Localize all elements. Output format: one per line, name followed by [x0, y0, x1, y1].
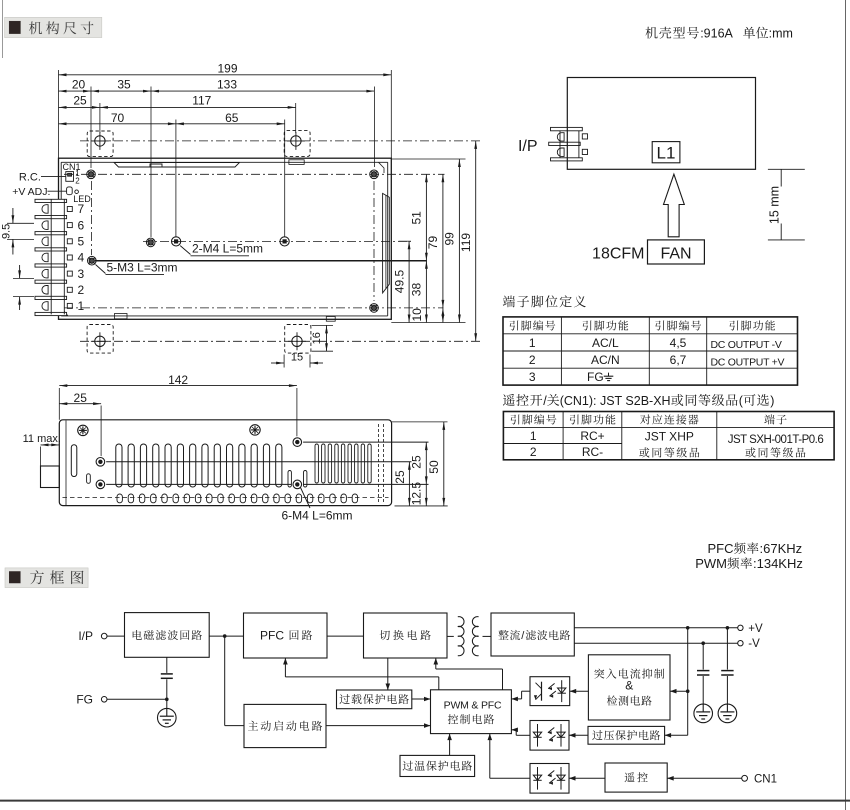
wire OVL to PWM	[412, 697, 431, 702]
svg-text:9.5: 9.5	[1, 224, 13, 239]
remote control note line	[503, 394, 774, 408]
svg-text::mm: :mm	[769, 27, 793, 41]
LED	[73, 190, 91, 204]
svg-text:11 max.: 11 max.	[23, 433, 61, 445]
corner gusset top-right	[379, 162, 385, 173]
connector CN1	[63, 162, 81, 185]
svg-text:PWM & PFC: PWM & PFC	[444, 700, 502, 712]
screw M3 top-right	[370, 170, 379, 179]
junction +V cap	[726, 626, 730, 630]
svg-text:51: 51	[410, 211, 424, 225]
wire U3 to PWM	[488, 734, 531, 779]
top edge tab	[289, 160, 304, 165]
inductor L1 box	[652, 142, 680, 163]
side dim 25 top	[59, 391, 101, 459]
wire PFC to SW	[327, 635, 364, 637]
svg-text:R.C.: R.C.	[19, 171, 41, 183]
table2 data	[530, 429, 823, 459]
table1 title 端子脚位定义	[503, 295, 586, 307]
dim 16	[311, 325, 333, 351]
svg-text:49.5: 49.5	[392, 269, 406, 293]
wire U2 to PWM	[511, 728, 530, 736]
svg-text:18CFM: 18CFM	[592, 245, 644, 262]
svg-text:15: 15	[291, 351, 303, 363]
side dim 50	[427, 422, 445, 506]
I/P connector	[549, 127, 588, 161]
block INR 突入电流抑制&检测电路	[588, 655, 670, 720]
junction FG	[165, 698, 169, 702]
centerline flange top	[80, 140, 481, 142]
svg-text:(CN1): JST S2B-XH: (CN1): JST S2B-XH	[560, 394, 671, 408]
case outline top view	[59, 158, 392, 319]
centerline screws bottom	[64, 307, 444, 309]
svg-text::134KHz: :134KHz	[753, 556, 803, 571]
svg-text:DC OUTPUT +V: DC OUTPUT +V	[711, 356, 785, 368]
top edge vent bar	[114, 163, 240, 168]
mounting flange top-right	[284, 131, 310, 157]
ext case top right	[391, 158, 465, 160]
mounting flange bottom-right	[285, 325, 311, 354]
side screw c	[292, 436, 304, 448]
svg-text:&: &	[625, 679, 633, 693]
mounting flange bottom-left	[87, 325, 113, 354]
svg-text:65: 65	[225, 111, 239, 125]
label 5-M3 L=3mm	[96, 260, 178, 274]
side screw hole line mid-left	[100, 461, 411, 463]
label I/P	[518, 138, 538, 155]
wire sense to OVP	[665, 733, 688, 738]
side screw d	[292, 479, 304, 491]
screw M3 mid	[146, 238, 155, 247]
label R.C.	[19, 171, 66, 183]
side screw phillips mid	[250, 425, 260, 435]
terminal block	[35, 199, 67, 315]
mounting flange top-left	[87, 131, 113, 157]
svg-text:16: 16	[311, 332, 323, 344]
side vent slots	[116, 444, 371, 487]
wire OT to PWM	[447, 734, 452, 756]
block OVL 过载保护电路	[337, 690, 412, 709]
block PFC回路	[244, 613, 328, 658]
table2 grid	[503, 412, 834, 460]
svg-text:FG: FG	[587, 370, 604, 384]
potentiometer +V ADJ	[67, 187, 73, 195]
svg-text:119: 119	[459, 233, 473, 252]
centerline screws top	[64, 173, 445, 175]
wire INR to U1	[570, 689, 589, 694]
svg-text:FG: FG	[76, 692, 93, 706]
bottom edge tab right	[326, 317, 335, 322]
svg-text:JST SXH-001T-P0.6: JST SXH-001T-P0.6	[728, 434, 824, 446]
label 18CFM	[592, 245, 644, 262]
svg-text:(: (	[739, 394, 744, 408]
centerline M4 screws	[143, 240, 411, 242]
block EMI 电磁滤波回路	[125, 613, 210, 658]
svg-text:25: 25	[73, 94, 87, 108]
svg-text:): )	[770, 394, 774, 408]
side bottom oval slots	[117, 494, 358, 503]
optocoupler U1	[530, 677, 570, 706]
wire sense to INR	[670, 689, 688, 694]
transformer T1	[458, 617, 479, 656]
dim 119	[459, 141, 477, 341]
wire REM to U3	[569, 776, 605, 781]
block ACT 主动启动电路	[244, 704, 326, 747]
svg-text:4,5: 4,5	[670, 336, 687, 350]
svg-text:6: 6	[78, 218, 85, 232]
svg-text:25: 25	[74, 391, 88, 405]
svg-text:50: 50	[427, 460, 441, 474]
dim 25/117	[59, 94, 296, 133]
svg-text:AC/N: AC/N	[591, 353, 620, 367]
screw M4 a	[172, 237, 181, 246]
capacitor C2 +V	[721, 628, 733, 704]
svg-text:35: 35	[117, 77, 131, 91]
svg-text:DC OUTPUT -V: DC OUTPUT -V	[711, 339, 782, 351]
svg-text:5: 5	[78, 235, 85, 249]
svg-text:PWM: PWM	[695, 556, 727, 571]
side dim 25a	[393, 462, 411, 506]
svg-text:2: 2	[75, 176, 80, 185]
side dim 25b	[409, 442, 427, 484]
wire +V sense down	[687, 628, 689, 736]
ground C1	[694, 704, 713, 723]
svg-text:10: 10	[410, 308, 424, 322]
wire SW to OVL	[386, 658, 391, 690]
svg-text:142: 142	[168, 373, 188, 387]
table2 header row	[511, 414, 787, 424]
dim 9.5	[1, 208, 35, 255]
dim 20/35/133	[59, 77, 375, 237]
wire FG	[107, 698, 167, 700]
svg-text:2: 2	[78, 283, 85, 297]
side view case	[59, 420, 391, 506]
side view bottom dashed line	[63, 497, 389, 499]
dim 51/38	[410, 174, 428, 322]
wire -V rail	[574, 642, 737, 644]
label 2-M4 L=5mm	[180, 242, 263, 256]
corner gusset bottom-left	[63, 310, 68, 316]
side ext line3	[429, 442, 431, 444]
svg-text:7: 7	[78, 202, 85, 216]
section header 机构尺寸	[5, 17, 102, 37]
wire OVP to U2	[569, 733, 588, 738]
svg-text:4: 4	[78, 251, 85, 265]
svg-text:FAN: FAN	[660, 245, 691, 262]
right side louver	[383, 193, 390, 293]
table1 grid	[503, 317, 798, 385]
junction sense INR	[686, 689, 690, 693]
dim 15 mm	[767, 169, 805, 240]
svg-text::916A: :916A	[700, 27, 733, 41]
svg-text:/: /	[521, 630, 525, 642]
wire U1 to PWM	[511, 691, 530, 701]
svg-text:3: 3	[78, 267, 85, 281]
screw M3 mid-left	[88, 256, 97, 265]
svg-text:+V: +V	[748, 623, 763, 635]
label 6-M4 L=6mm	[282, 488, 353, 523]
svg-text:+V ADJ.: +V ADJ.	[12, 186, 50, 198]
side screw phillips left	[78, 425, 88, 435]
terminal +V	[738, 623, 763, 635]
dim 99	[443, 159, 461, 323]
line 5-M3 mid	[95, 260, 427, 262]
svg-text:PFC: PFC	[708, 541, 734, 556]
block OVP 过压保护电路	[588, 726, 665, 744]
svg-text:CN1: CN1	[754, 773, 777, 785]
dim 199	[59, 61, 392, 158]
AC inlet connector	[41, 466, 60, 488]
svg-text:I/P: I/P	[78, 629, 93, 643]
wire SW to transformer	[447, 635, 454, 637]
dim 15	[271, 351, 323, 367]
svg-text:117: 117	[192, 94, 211, 108]
side screw b	[95, 479, 107, 491]
svg-text:70: 70	[111, 111, 125, 125]
wire ACT to PWM	[326, 723, 431, 728]
svg-text:I/P: I/P	[518, 138, 538, 155]
note PWM frequency	[695, 556, 803, 571]
dim 11 max	[23, 433, 61, 466]
wire EMI branch to ACT	[225, 636, 244, 726]
svg-text:38: 38	[410, 283, 424, 297]
svg-text::67KHz: :67KHz	[760, 541, 803, 556]
centerline flange bottom	[80, 340, 481, 342]
wire PWM drive to SW	[434, 658, 503, 690]
screw M3 top-left	[87, 170, 96, 179]
svg-text:15 mm: 15 mm	[767, 186, 781, 224]
bottom edge tab left	[115, 314, 128, 319]
svg-text:6-M4 L=6mm: 6-M4 L=6mm	[282, 509, 353, 523]
junction +V sense	[686, 626, 690, 630]
screw M3 bottom-right	[370, 304, 379, 313]
side screw hole line top-right	[297, 441, 428, 443]
page left border stub	[2, 0, 4, 58]
junction EMI out	[223, 634, 227, 638]
label +V ADJ.	[12, 186, 66, 198]
ground C2	[718, 704, 737, 723]
svg-text:6,7: 6,7	[670, 353, 687, 367]
side right dashed detail	[379, 424, 384, 502]
svg-text:1: 1	[78, 299, 85, 313]
wire EMI to PFC	[209, 635, 243, 637]
side dim 142	[59, 373, 297, 439]
terminal FG	[76, 692, 107, 706]
wire I/P to EMI	[107, 635, 125, 637]
svg-text:2: 2	[530, 445, 537, 459]
svg-text:5-M3 L=3mm: 5-M3 L=3mm	[107, 260, 178, 274]
svg-text:-V: -V	[748, 638, 760, 650]
dim pitch lower	[13, 265, 34, 310]
dim 49.5	[392, 241, 410, 322]
svg-text:RC-: RC-	[582, 445, 603, 459]
side screw a	[95, 456, 107, 468]
wire transformer to RECT	[483, 635, 492, 637]
block REM 遥控	[605, 763, 667, 792]
svg-text:3: 3	[529, 370, 536, 384]
block RECT 整流/滤波电路	[491, 613, 574, 656]
centerline right screws vertical	[373, 181, 375, 301]
capacitor C1 -V	[697, 643, 709, 704]
wire PWM feedback to PFC	[283, 658, 439, 690]
side screw hole line lower	[100, 483, 428, 485]
svg-text:20: 20	[72, 77, 86, 91]
section header 方框图	[5, 568, 88, 588]
wire CN1 to REM	[667, 776, 742, 781]
FAN box	[648, 240, 705, 264]
svg-text:99: 99	[443, 232, 457, 246]
svg-text:LED: LED	[73, 194, 91, 204]
svg-text:2-M4 L=5mm: 2-M4 L=5mm	[192, 242, 263, 256]
side dim 12.5	[409, 482, 427, 506]
side ext bottom	[395, 505, 448, 507]
terminal I/P	[78, 629, 107, 643]
note PFC frequency	[708, 541, 803, 556]
optocoupler U3	[530, 764, 569, 794]
dim 79/10	[410, 174, 444, 322]
ext 49.5 tick	[399, 240, 412, 242]
screw M4 b	[280, 237, 289, 246]
terminal pins 7..1	[67, 202, 84, 313]
terminal CN1	[742, 773, 777, 785]
svg-text:12.5: 12.5	[409, 482, 423, 506]
ext case bottom right	[391, 322, 465, 324]
svg-text:PFC: PFC	[260, 629, 284, 643]
svg-text:RC+: RC+	[580, 429, 604, 443]
text 整流/滤波电路	[498, 630, 570, 642]
svg-text:199: 199	[217, 61, 237, 75]
dim 70/65	[59, 111, 285, 237]
block OT 过温保护电路	[400, 755, 475, 776]
svg-text:25: 25	[393, 470, 407, 484]
svg-text:L1: L1	[657, 144, 676, 163]
block SW 切换电路	[364, 613, 448, 658]
optocoupler U2	[530, 721, 569, 751]
junction -V cap	[701, 641, 705, 645]
side ext top	[392, 421, 448, 423]
side left slot	[71, 445, 90, 484]
table1 data rows	[529, 336, 785, 384]
block PWM&PFC 控制电路	[431, 690, 512, 734]
terminal -V	[738, 638, 760, 650]
page right border	[845, 0, 847, 810]
svg-text:133: 133	[217, 77, 237, 91]
page bottom border	[0, 800, 850, 802]
label 机壳型号:916A 单位:mm	[645, 27, 792, 41]
fan view case	[567, 78, 755, 170]
capacitor EMI-FG	[161, 657, 173, 699]
svg-text:/: /	[543, 394, 547, 408]
centerline left screws vertical	[90, 181, 92, 255]
svg-text:JST XHP: JST XHP	[645, 430, 694, 444]
wire +V rail	[574, 627, 737, 629]
svg-text:79: 79	[426, 236, 440, 250]
svg-text:2: 2	[529, 353, 536, 367]
svg-text:25: 25	[409, 455, 423, 469]
ground FG	[158, 699, 177, 727]
table1 header row	[510, 320, 775, 330]
svg-text:1: 1	[529, 336, 536, 350]
fan airflow arrow	[664, 174, 685, 237]
svg-text:AC/L: AC/L	[592, 336, 619, 350]
svg-text:1: 1	[530, 429, 537, 443]
